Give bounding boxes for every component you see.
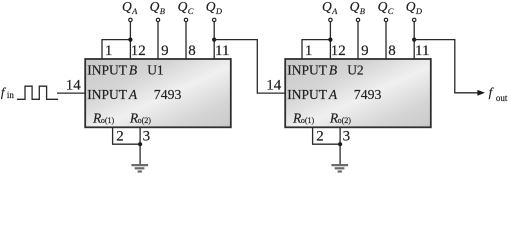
- svg-text:o(2): o(2): [138, 116, 152, 125]
- svg-text:o(1): o(1): [301, 116, 315, 125]
- junction pins 2-3 U1: [138, 142, 142, 146]
- ground U1: [131, 165, 148, 171]
- svg-text:9: 9: [361, 43, 369, 59]
- svg-text:f: f: [489, 84, 495, 99]
- U1 pin 9 wire (QB): [157, 22, 159, 59]
- svg-text:1: 1: [105, 43, 113, 59]
- svg-text:Q: Q: [350, 0, 360, 14]
- svg-text:2: 2: [116, 129, 124, 145]
- svg-text:INPUT: INPUT: [287, 62, 328, 77]
- terminal QD U1: [212, 18, 216, 22]
- U2 pin 3 wire: [339, 127, 341, 164]
- svg-text:C: C: [188, 6, 194, 16]
- input clock pulse waveform: [17, 86, 58, 99]
- terminal QB U2: [356, 18, 360, 22]
- svg-text:Q: Q: [206, 0, 216, 14]
- svg-text:8: 8: [188, 43, 196, 59]
- junction pin1-QA U1: [128, 38, 132, 42]
- IC U2 7493 body: [285, 59, 431, 127]
- junction QD-cascade U1: [212, 38, 216, 42]
- svg-text:B: B: [329, 62, 337, 77]
- junction QD-fout U2: [412, 38, 416, 42]
- svg-text:INPUT: INPUT: [87, 62, 128, 77]
- svg-text:INPUT: INPUT: [287, 87, 328, 102]
- U2 pin 12 wire (QA): [329, 22, 331, 59]
- terminal QC U1: [184, 18, 188, 22]
- svg-text:7493: 7493: [354, 87, 382, 102]
- svg-text:D: D: [215, 6, 223, 16]
- svg-text:INPUT: INPUT: [87, 87, 128, 102]
- svg-text:7493: 7493: [154, 87, 182, 102]
- svg-text:8: 8: [388, 43, 396, 59]
- U2 pin 8 wire (QC): [385, 22, 387, 59]
- svg-text:B: B: [129, 62, 137, 77]
- svg-text:B: B: [160, 6, 165, 16]
- U1 pin 3 wire: [139, 127, 141, 164]
- svg-text:14: 14: [266, 77, 282, 93]
- svg-text:out: out: [496, 93, 508, 103]
- svg-text:A: A: [131, 6, 138, 16]
- svg-text:12: 12: [131, 43, 146, 59]
- IC U1 7493 body: [85, 59, 231, 127]
- U2 pin 1 wire: [302, 40, 330, 59]
- terminal QB U1: [156, 18, 160, 22]
- U2 pin 11 wire (QD): [413, 22, 415, 59]
- svg-text:o(1): o(1): [101, 116, 115, 125]
- U1 pin 12 wire (QA): [129, 22, 131, 59]
- svg-text:Q: Q: [406, 0, 416, 14]
- terminal QA U2: [329, 18, 333, 22]
- svg-text:Q: Q: [322, 0, 332, 14]
- ground U2: [331, 165, 348, 171]
- svg-text:in: in: [7, 90, 15, 100]
- svg-text:11: 11: [215, 43, 229, 59]
- svg-text:11: 11: [415, 43, 429, 59]
- svg-text:C: C: [388, 6, 394, 16]
- U1 pin 11 wire (QD): [213, 22, 215, 59]
- svg-text:Q: Q: [378, 0, 388, 14]
- svg-text:A: A: [128, 87, 138, 102]
- U2 pin 9 wire (QB): [357, 22, 359, 59]
- terminal QD U2: [412, 18, 416, 22]
- output arrowhead: [477, 90, 485, 96]
- svg-text:A: A: [328, 87, 338, 102]
- svg-text:3: 3: [143, 129, 151, 145]
- U2 pin 2 wire: [313, 127, 341, 144]
- terminal QC U2: [384, 18, 388, 22]
- svg-text:Q: Q: [122, 0, 132, 14]
- svg-text:B: B: [360, 6, 365, 16]
- U1 pin 1 wire: [102, 40, 130, 59]
- svg-text:U1: U1: [147, 62, 164, 77]
- U1 pin 8 wire (QC): [185, 22, 187, 59]
- junction pin1-QA U2: [328, 38, 332, 42]
- svg-text:Q: Q: [150, 0, 160, 14]
- terminal QA U1: [129, 18, 133, 22]
- svg-text:Q: Q: [178, 0, 188, 14]
- svg-text:9: 9: [161, 43, 169, 59]
- svg-text:12: 12: [331, 43, 346, 59]
- svg-text:3: 3: [343, 129, 351, 145]
- wire f_in to U1 pin 14: [57, 92, 86, 94]
- junction pins 2-3 U2: [338, 142, 342, 146]
- svg-text:A: A: [331, 6, 338, 16]
- svg-text:1: 1: [305, 43, 313, 59]
- U1 pin 2 wire: [113, 127, 141, 144]
- svg-text:2: 2: [316, 129, 324, 145]
- svg-text:o(2): o(2): [338, 116, 352, 125]
- cascade wire U1 QD to U2 pin 14: [214, 40, 285, 94]
- svg-text:14: 14: [66, 77, 82, 93]
- svg-text:D: D: [415, 6, 423, 16]
- svg-text:U2: U2: [347, 62, 364, 77]
- wire U2 QD to output arrow: [414, 40, 478, 93]
